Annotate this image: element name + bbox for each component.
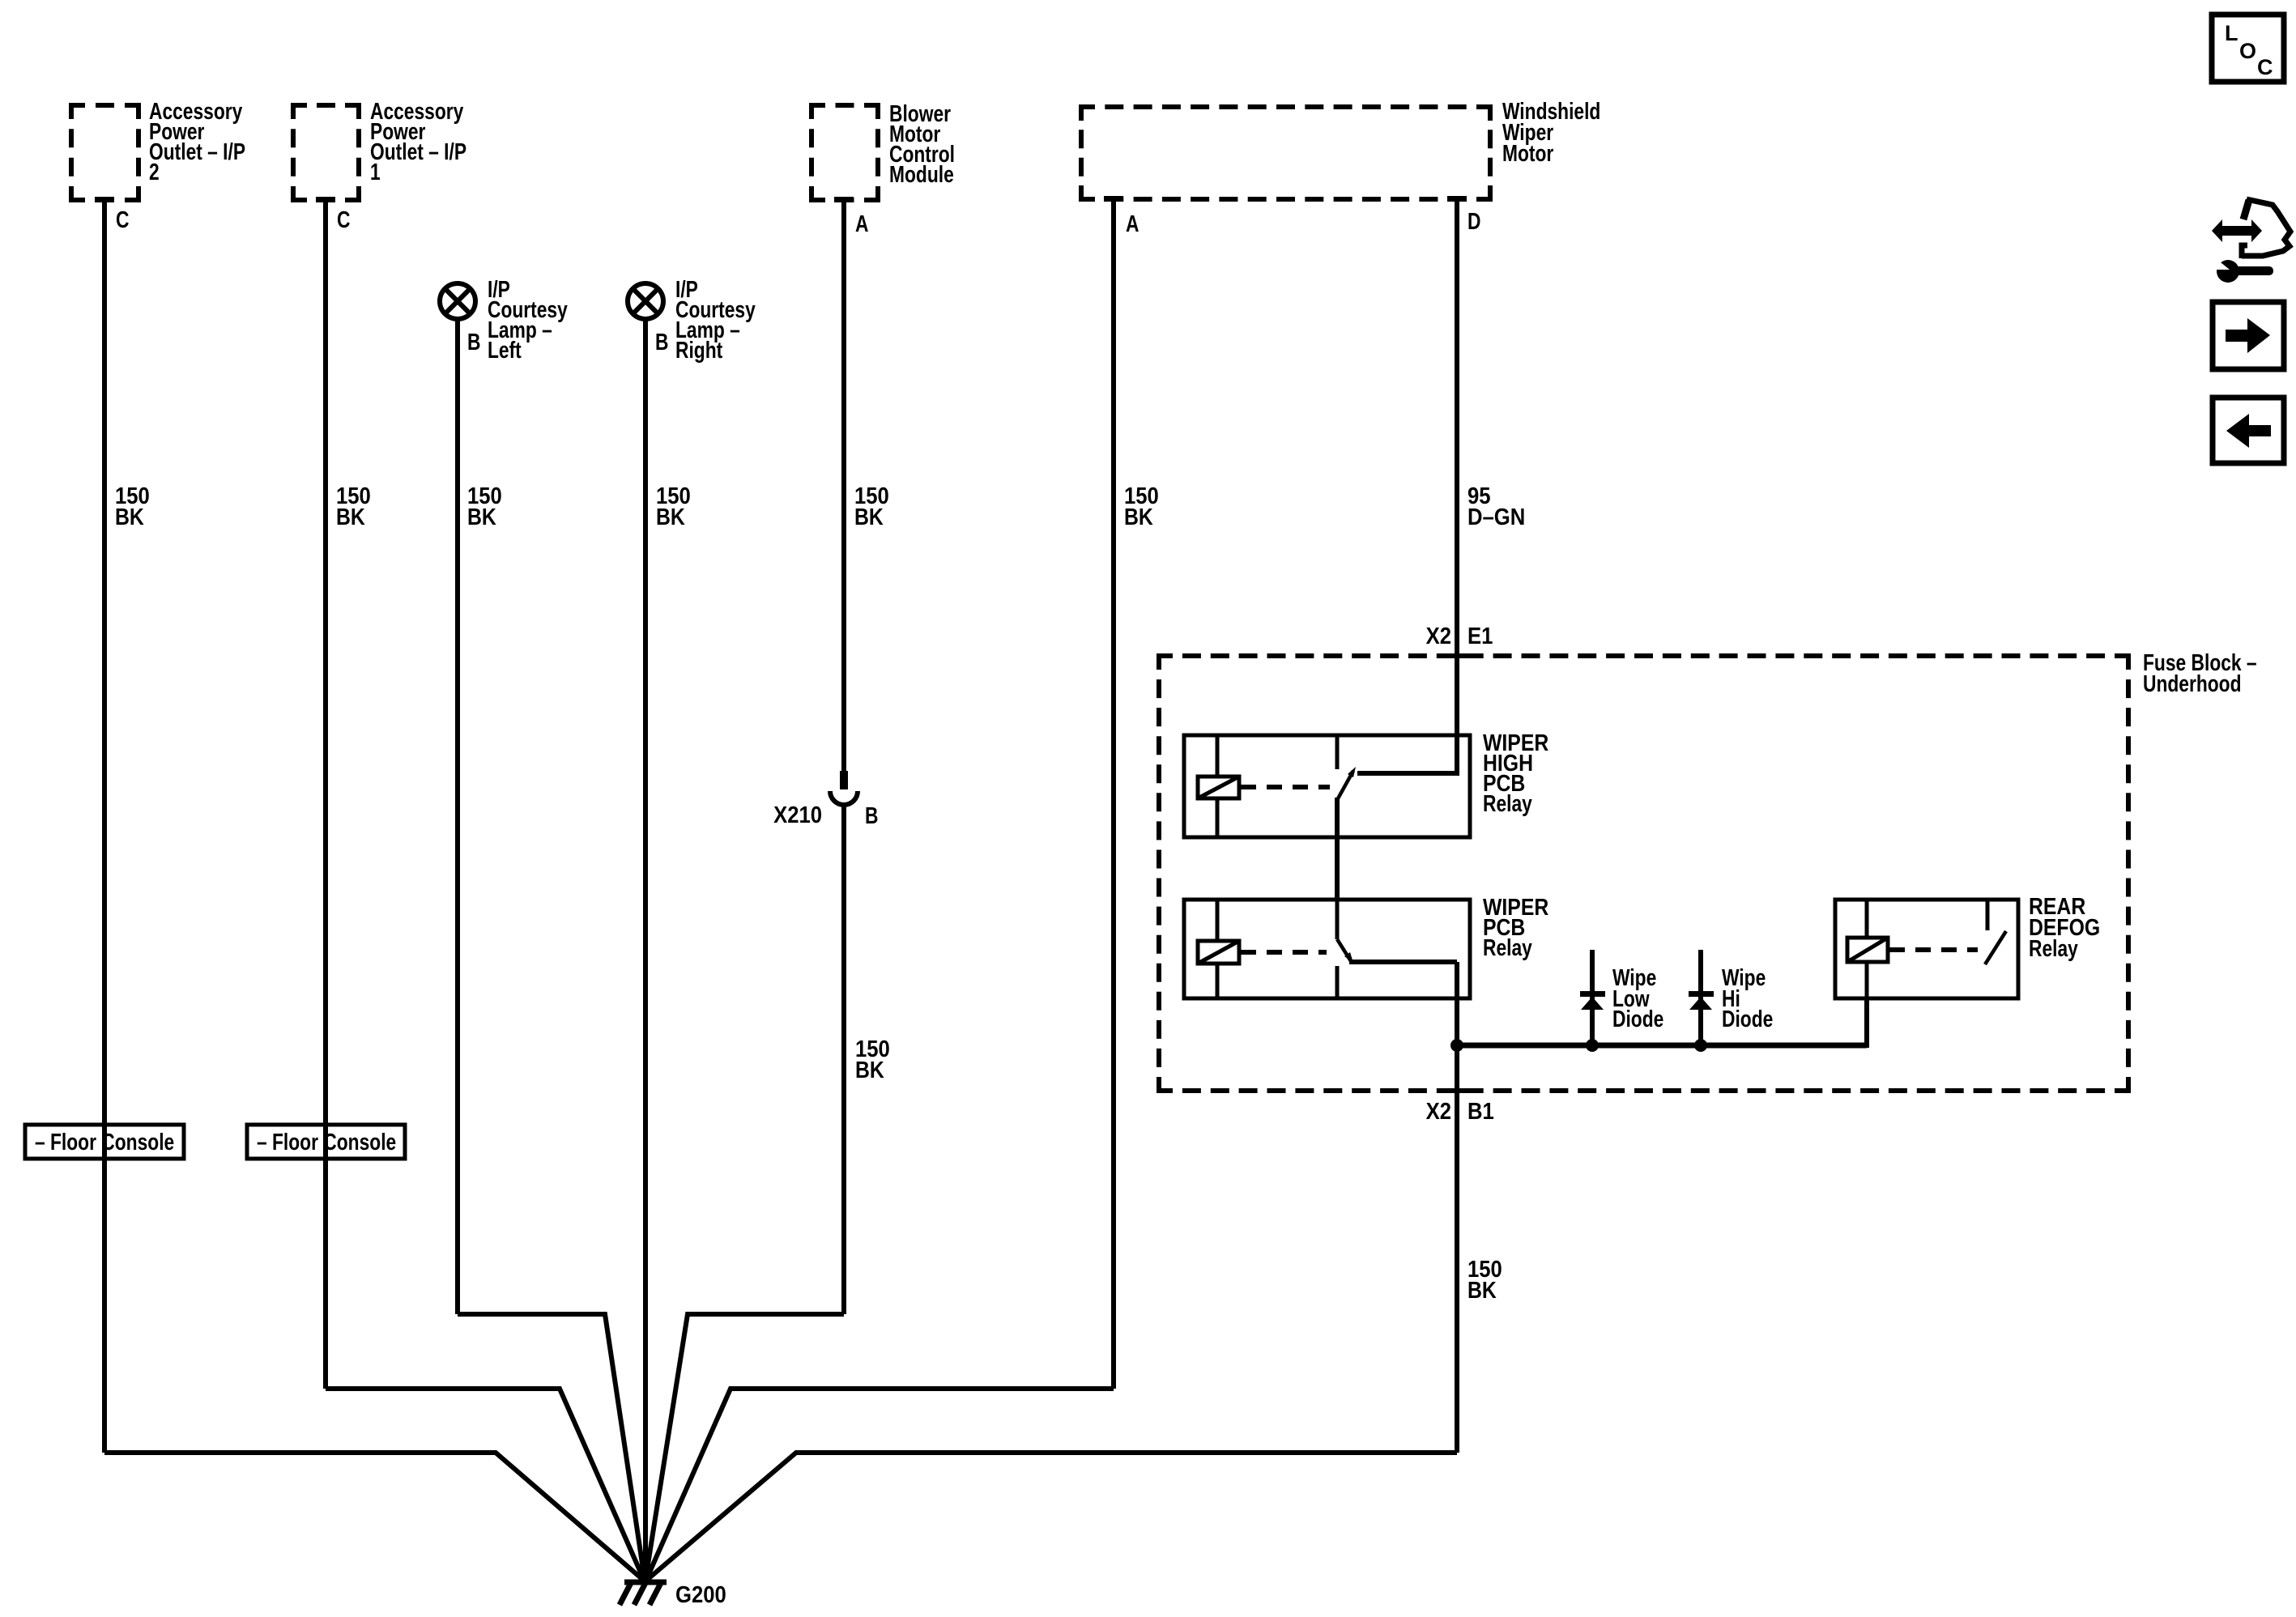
svg-text:G200: G200 — [675, 1581, 726, 1608]
svg-text:Outlet – I/P: Outlet – I/P — [149, 140, 245, 165]
pin stub bar for Accessory Power Outlet 1 — [316, 197, 335, 202]
svg-text:E1: E1 — [1467, 623, 1493, 649]
relay 1 blade arrowhead — [1348, 767, 1356, 777]
relay 1 fixed contact from top — [1335, 735, 1340, 769]
svg-text:X2: X2 — [1426, 1098, 1451, 1125]
relay 2 output horizontal — [1349, 960, 1457, 964]
connector box: Accessory Power Outlet - I/P 1 — [293, 105, 359, 200]
diode: Wipe Low Diode — [1580, 950, 1605, 1045]
label: Fuse Block - Underhood — [2143, 651, 2257, 697]
relay box: REAR DEFOG Relay — [1835, 900, 2018, 998]
splice box: Floor Console (right) — [247, 1125, 405, 1159]
svg-text:Outlet – I/P: Outlet – I/P — [370, 140, 466, 165]
relay 2 coil diagonal — [1198, 941, 1239, 964]
pin stub bar for Accessory Power Outlet 2 — [95, 197, 114, 202]
svg-text:X210: X210 — [773, 802, 822, 828]
wire: lamp left down — [455, 319, 460, 1314]
wire: lamp right down to ground apex — [643, 319, 648, 1581]
svg-text:1: 1 — [370, 160, 381, 185]
label: REAR DEFOG Relay — [2029, 893, 2100, 961]
icon: harness routing (double arrow, outline, wrench) — [2212, 199, 2290, 283]
svg-text:Motor: Motor — [1502, 142, 1553, 167]
svg-text:Right: Right — [675, 338, 723, 364]
wire label 150 BK (blower wire lower) — [855, 1036, 890, 1083]
icon: LOC box — [2212, 15, 2284, 82]
relay 1 coil feed wire bottom — [1216, 798, 1220, 837]
svg-text:BK: BK — [115, 504, 144, 530]
fuse block edge dash at E1 crossing — [1446, 653, 1467, 658]
wire label 95 D-GN (wiper D wire) — [1467, 483, 1525, 530]
wire: outlet-2 horizontal run and diagonal to ground — [104, 1453, 643, 1580]
svg-text:Relay: Relay — [2029, 937, 2078, 962]
junction dot at relay 2 output — [1450, 1039, 1463, 1052]
rear defog coil feed wire bottom — [1865, 962, 1869, 998]
label: Accessory Power Outlet - I/P 2 — [149, 100, 245, 185]
relay 2 coil — [1198, 941, 1239, 964]
inline connector X210 — [830, 771, 858, 805]
relay 1 control dashed link — [1241, 785, 1330, 789]
splice box: Floor Console (left) — [25, 1125, 184, 1159]
lamp: I/P Courtesy Lamp - Right — [628, 283, 663, 319]
svg-text:O: O — [2239, 39, 2256, 63]
wire label 150 BK (blower wire upper) — [854, 483, 889, 530]
wire: bus down through X2 B1 to lower run — [1455, 1045, 1459, 1453]
svg-text:Diode: Diode — [1722, 1007, 1773, 1032]
svg-text:B: B — [467, 330, 480, 355]
rear defog switch blade — [1985, 931, 2006, 964]
lamp: I/P Courtesy Lamp - Left — [440, 283, 475, 319]
pin stub bar D (wiper motor) — [1447, 196, 1467, 202]
wire: blower horizontal run and diagonal to ground — [645, 1314, 844, 1580]
outline arrow shape — [2243, 200, 2249, 219]
svg-text:– Floor Console: – Floor Console — [35, 1130, 174, 1155]
svg-text:A: A — [855, 212, 868, 237]
fuse block edge dash at B1 crossing — [1446, 1088, 1467, 1093]
double arrow — [2212, 219, 2262, 242]
wire: outlet 2 pin C down to lower run — [102, 202, 107, 1453]
svg-text:BK: BK — [1124, 504, 1153, 530]
svg-text:D: D — [1467, 210, 1480, 235]
wire: B1 horizontal run and diagonal to ground — [647, 1453, 1457, 1580]
label: I/P Courtesy Lamp - Left — [488, 278, 568, 364]
wire: lamp-left horizontal run and diagonal to ground — [458, 1314, 645, 1580]
rear defog coil diagonal — [1847, 938, 1888, 962]
svg-text:C: C — [337, 208, 350, 233]
svg-text:BK: BK — [1467, 1277, 1497, 1303]
svg-text:2: 2 — [149, 160, 160, 185]
svg-text:Relay: Relay — [1483, 792, 1532, 817]
forward arrow — [2226, 318, 2270, 353]
wire: wiper motor pin D down into fuse block — [1455, 202, 1459, 776]
connector box: Windshield Wiper Motor — [1081, 107, 1490, 199]
label: Accessory Power Outlet - I/P 1 — [370, 100, 466, 185]
svg-text:– Floor Console: – Floor Console — [257, 1130, 396, 1155]
wire label 150 BK (lamp left wire) — [467, 483, 502, 530]
pin stub bar for Blower Motor Control Module — [834, 197, 854, 202]
icon: back arrow box — [2213, 398, 2284, 463]
svg-text:C: C — [116, 208, 129, 233]
relay 1 common down to relay 2 — [1335, 798, 1340, 900]
relay 2 coil feed wire top — [1216, 900, 1220, 941]
relay 2 switch blade — [1337, 939, 1351, 961]
svg-text:Underhood: Underhood — [2143, 672, 2242, 697]
wire: outlet-1 horizontal run and diagonal to ground — [326, 1389, 644, 1580]
wire: X210 down to lower run — [841, 804, 846, 1314]
diode: Wipe Hi Diode — [1689, 950, 1714, 1045]
relay box: WIPER PCB Relay — [1184, 900, 1470, 998]
relay 1 coil diagonal — [1198, 777, 1239, 798]
connector box: Accessory Power Outlet - I/P 2 — [71, 105, 138, 200]
svg-text:BK: BK — [656, 504, 685, 530]
wire: blower pin A down to X210 — [841, 202, 846, 774]
LOC letters — [2225, 21, 2273, 79]
connector box: Blower Motor Control Module — [811, 105, 878, 200]
svg-text:B: B — [655, 330, 668, 355]
wire label 150 BK (outlet 2 wire) — [115, 483, 150, 530]
pin stub bar A (wiper motor) — [1104, 196, 1123, 202]
svg-text:Left: Left — [488, 338, 522, 364]
relay 1 switch blade — [1337, 771, 1353, 800]
label: WIPER PCB Relay — [1483, 894, 1548, 960]
rear defog coil wire down to bus — [1864, 998, 1869, 1048]
label: Wipe Hi Diode — [1722, 966, 1773, 1032]
ground symbol G200 — [620, 1581, 667, 1605]
label: Wipe Low Diode — [1612, 966, 1663, 1032]
relay 2 common from relay 1 — [1335, 900, 1340, 939]
relay 1 output horizontal to D wire — [1357, 771, 1457, 776]
svg-text:Module: Module — [889, 163, 954, 188]
relay 2 control dashed link — [1241, 950, 1327, 955]
relay 2 unused contact stub — [1335, 966, 1340, 998]
svg-text:BK: BK — [336, 504, 365, 530]
back arrow — [2226, 414, 2271, 448]
svg-text:X2: X2 — [1426, 623, 1451, 649]
svg-text:L: L — [2225, 21, 2238, 45]
label: Blower Motor Control Module — [889, 102, 955, 188]
wire: wiper-A horizontal run and diagonal to ground — [646, 1389, 1114, 1580]
svg-text:BK: BK — [855, 1057, 884, 1083]
fuse block underhood dashed box — [1159, 656, 2128, 1091]
svg-text:D–GN: D–GN — [1467, 504, 1525, 530]
label: Windshield Wiper Motor — [1502, 100, 1600, 167]
relay 1 coil — [1198, 777, 1239, 798]
relay box: WIPER HIGH PCB Relay — [1184, 735, 1470, 837]
wire label 150 BK (outlet 1 wire) — [336, 483, 371, 530]
relay 2 output down to bus — [1455, 962, 1459, 1048]
relay 1 coil feed wire top — [1216, 735, 1220, 777]
junction dot at wipe low diode — [1586, 1039, 1599, 1052]
svg-text:B: B — [865, 804, 878, 829]
wire label 150 BK (lamp right wire) — [656, 483, 691, 530]
svg-text:C: C — [2257, 55, 2273, 79]
label: I/P Courtesy Lamp - Right — [675, 278, 756, 364]
wire label 150 BK (wiper A wire) — [1124, 483, 1159, 530]
rear defog control dashed link — [1889, 947, 1978, 952]
rear defog fixed contact — [1986, 900, 1990, 930]
icon: forward arrow box — [2213, 302, 2284, 369]
wire label 150 BK (B1 wire) — [1467, 1256, 1502, 1304]
ground bus inside fuse block — [1457, 1043, 1867, 1049]
svg-text:Relay: Relay — [1483, 936, 1532, 961]
svg-text:B1: B1 — [1467, 1098, 1494, 1125]
svg-text:A: A — [1126, 212, 1139, 237]
svg-text:BK: BK — [467, 504, 496, 530]
label: WIPER HIGH PCB Relay — [1483, 730, 1548, 816]
wire: outlet 1 pin C down — [323, 202, 328, 1389]
rear defog coil — [1847, 938, 1888, 962]
rear defog coil feed wire top — [1865, 900, 1869, 938]
wire: wiper motor pin A down — [1111, 202, 1116, 1389]
svg-text:BK: BK — [854, 504, 884, 530]
svg-text:Diode: Diode — [1612, 1007, 1663, 1032]
relay 2 coil feed wire bottom — [1216, 964, 1220, 998]
wrench — [2217, 260, 2239, 283]
junction dot at wipe hi diode — [1694, 1039, 1707, 1052]
relay 2 blade arrowhead — [1344, 952, 1353, 963]
